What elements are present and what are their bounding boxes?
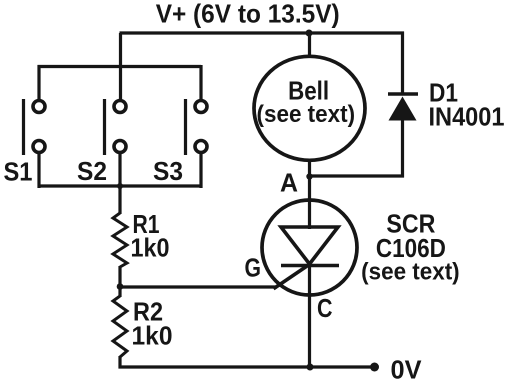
svg-text:G: G: [245, 253, 262, 283]
switch S1: [24, 99, 46, 155]
junction: R1/R2/gate node: [117, 283, 124, 290]
junction: anode node A: [306, 173, 312, 179]
wire: 0V bottom rail: [119, 365, 376, 368]
label Bell: [257, 76, 356, 128]
junction: SCR cathode meets 0V rail: [307, 364, 314, 371]
SCR Q1 C106D: [262, 200, 357, 295]
svg-text:V+ (6V to 13.5V): V+ (6V to 13.5V): [156, 0, 340, 28]
switch S2: [105, 99, 127, 155]
svg-text:S2: S2: [77, 156, 107, 186]
label D1 value: [429, 78, 505, 132]
svg-text:S1: S1: [4, 157, 33, 187]
wire: SCR cathode to 0V rail: [308, 264, 311, 367]
wire: switch bank bottom bar: [38, 184, 203, 187]
terminal: 0V end dot: [370, 363, 379, 372]
label R2 value: [132, 297, 173, 351]
svg-text:IN4001: IN4001: [429, 102, 505, 132]
wire: V+ top rail horizontal: [120, 31, 405, 34]
wire: V+ rail to bell top: [308, 33, 311, 58]
wire: S3 bottom contact to bottom bar: [199, 152, 202, 188]
junction: bell tap on V+ rail: [306, 30, 313, 37]
svg-text:S3: S3: [153, 156, 183, 186]
diode D1: [388, 94, 418, 121]
wire: switch bank top bar: [38, 65, 202, 68]
svg-text:1k0: 1k0: [131, 233, 170, 263]
wire: junction to R2 top: [118, 285, 121, 297]
resistor R1: [113, 213, 127, 267]
wire: stub to S3 top contact: [199, 65, 202, 101]
wire: R1 bottom to gate junction: [118, 266, 121, 288]
wire: gate wire from junction to SCR gate: [120, 285, 277, 288]
junction: S2 line crosses bottom bar: [117, 183, 123, 189]
wire: R2 bottom to 0V rail: [118, 356, 121, 369]
resistor R2: [113, 296, 127, 357]
wire: stub to S1 top contact: [37, 65, 40, 101]
wire: V+ rail down to D1 cathode: [401, 32, 404, 96]
wire: anode node to SCR anode: [308, 177, 311, 230]
svg-text:(see text): (see text): [257, 101, 356, 128]
svg-text:0V: 0V: [391, 355, 423, 381]
switch S3: [186, 99, 208, 155]
wire: S2 bottom contact down through bottom bar to R1: [118, 152, 121, 214]
bell B1: [254, 56, 365, 160]
svg-text:A: A: [280, 168, 298, 198]
wire: stub to S2 top contact: [119, 67, 122, 102]
wire: D1 anode to anode-node wire: [401, 118, 404, 178]
wire: left drop from V+ rail to switch top bar: [119, 33, 122, 68]
wire: S1 bottom contact to bottom bar: [37, 152, 40, 188]
svg-text:C: C: [317, 293, 333, 323]
label SCR type: [361, 209, 460, 286]
label R1 value: [131, 209, 170, 263]
wire: anode node to D1 bottom: [310, 174, 405, 177]
svg-text:(see text): (see text): [361, 259, 460, 286]
svg-text:1k0: 1k0: [132, 321, 173, 351]
wire: bell bottom to anode node: [308, 159, 311, 178]
